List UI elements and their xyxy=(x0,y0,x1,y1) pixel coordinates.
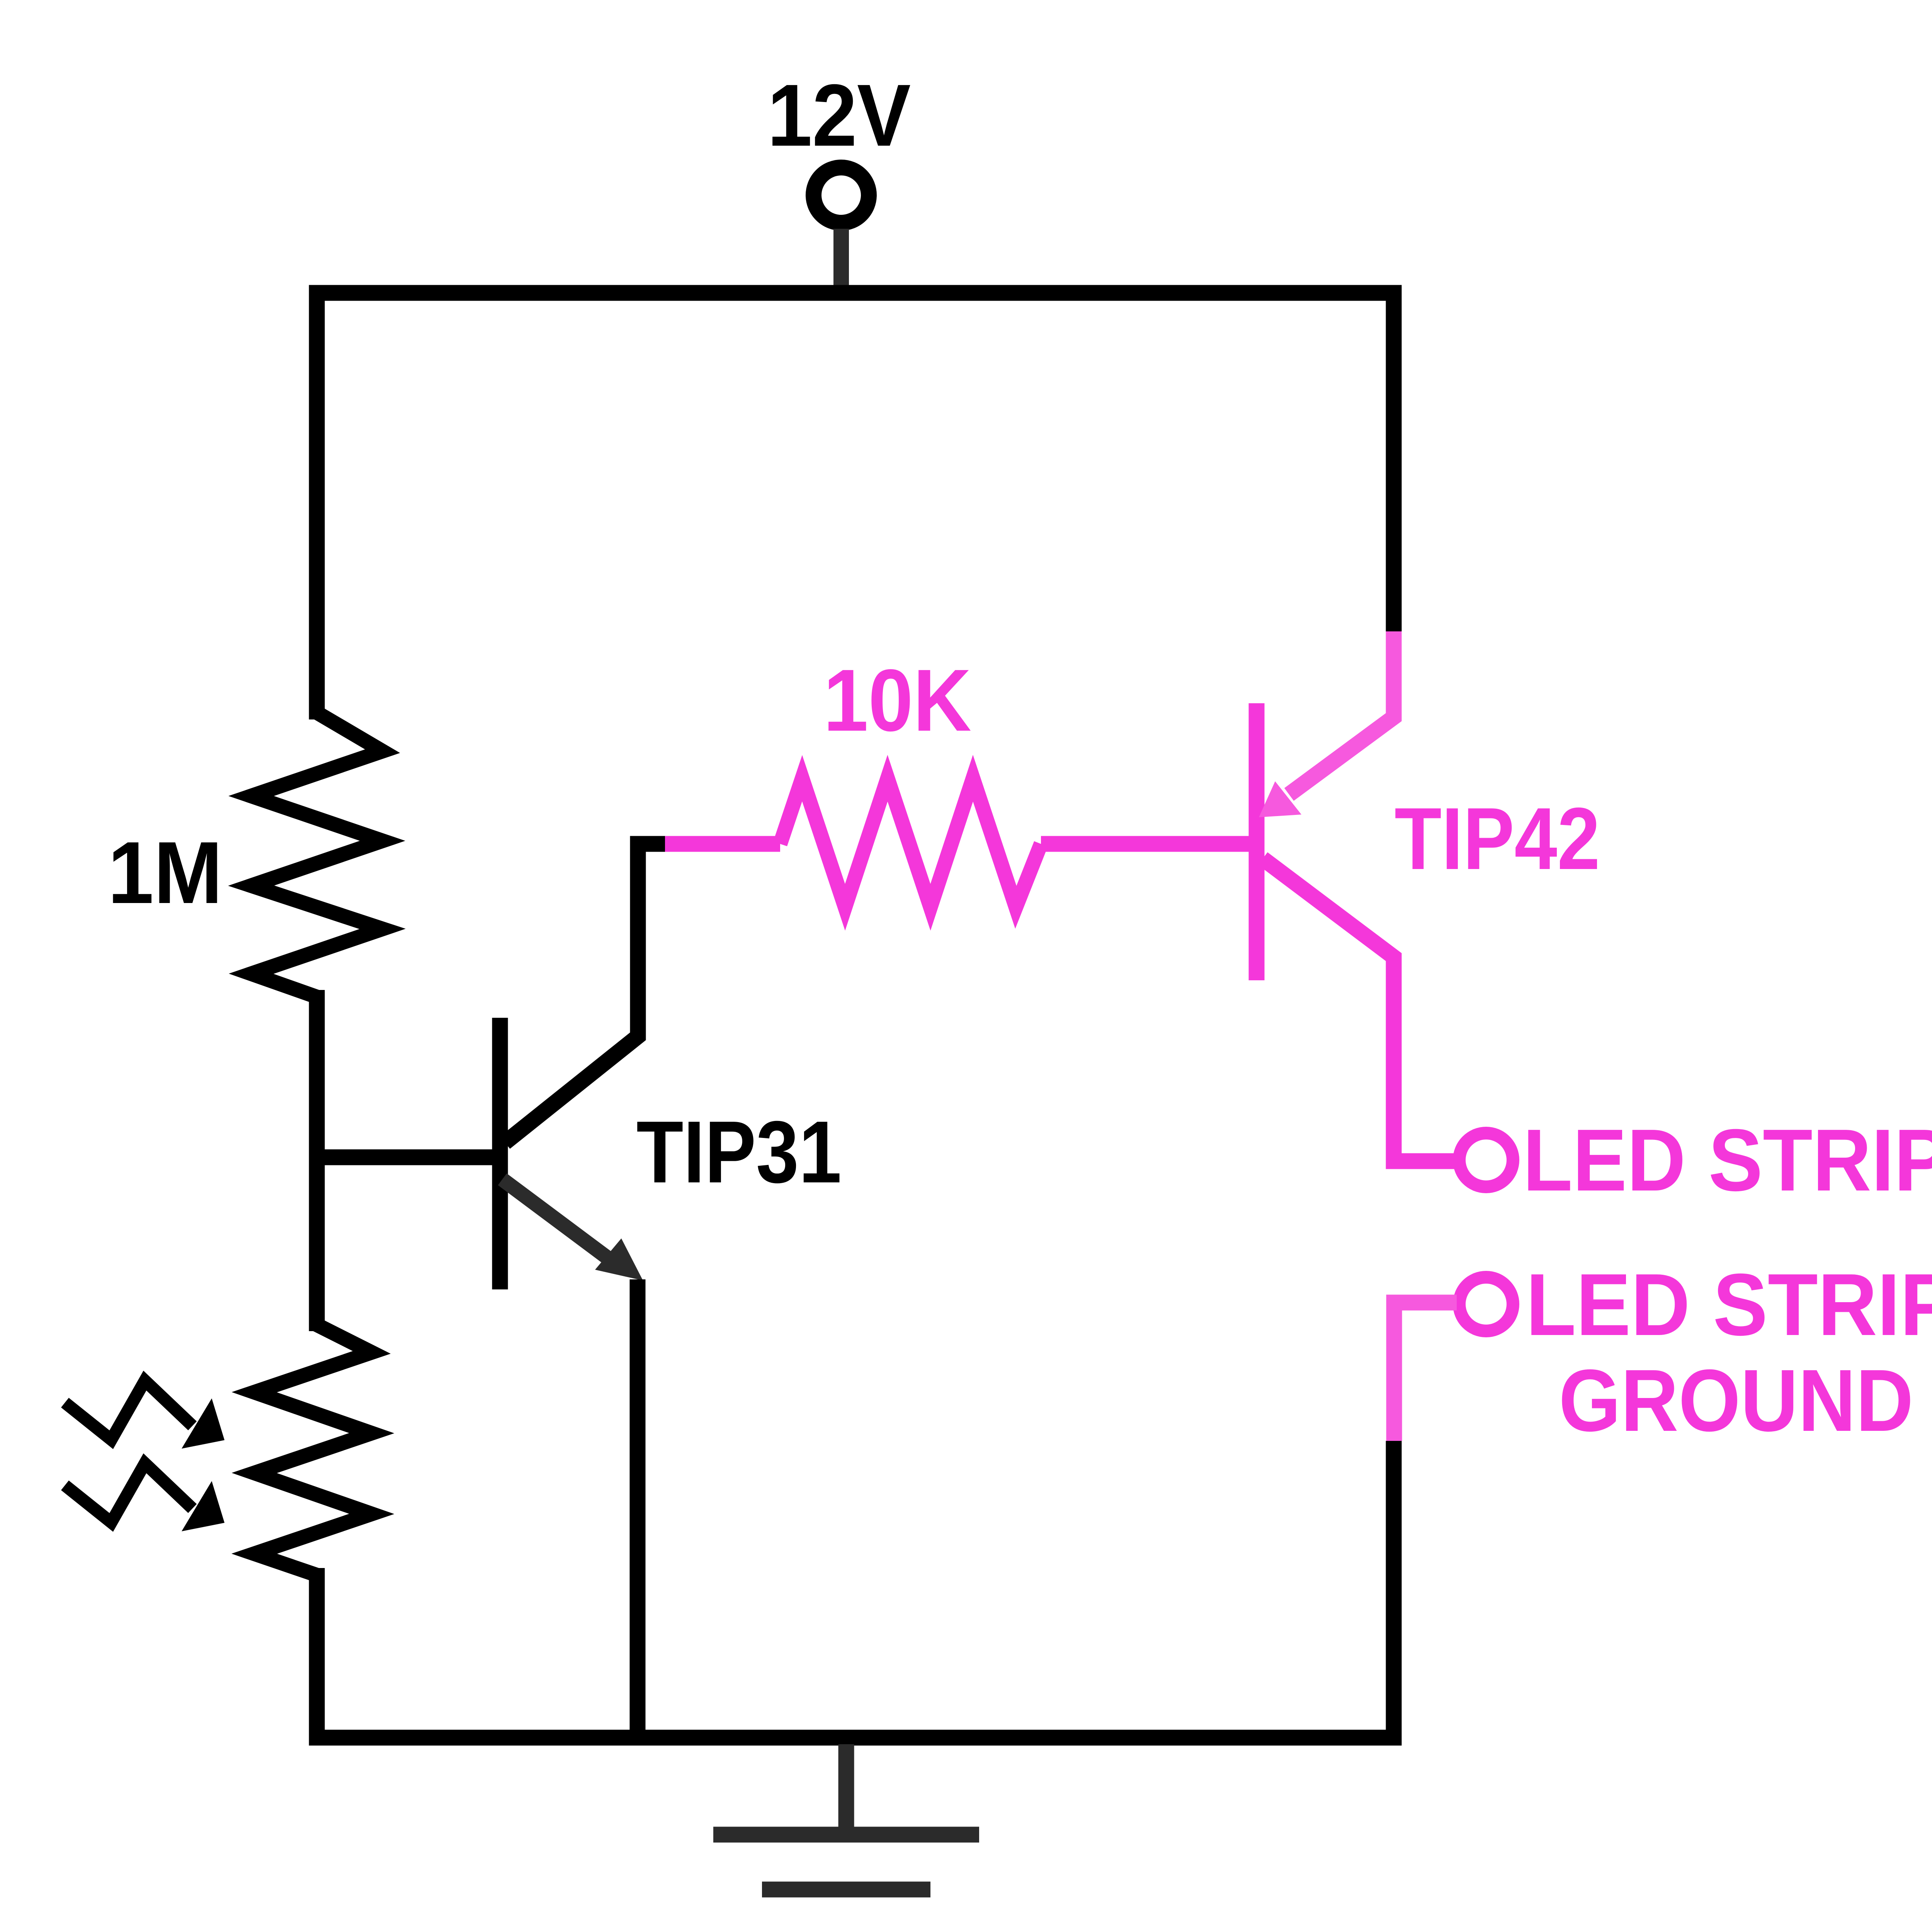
svg-text:TIP31: TIP31 xyxy=(636,1103,842,1201)
TIP42 emitter arrowhead xyxy=(1259,781,1301,817)
resistor 10K xyxy=(780,778,1041,907)
wire LED strip ground corner xyxy=(1394,1303,1457,1441)
svg-text:LED STRIP: LED STRIP xyxy=(1526,1256,1932,1354)
12V supply terminal xyxy=(814,168,869,223)
transistor Q2 TIP42 base bar xyxy=(1249,703,1265,980)
LDR light arrow 1 xyxy=(65,1381,192,1440)
transistor Q1 TIP31 base bar xyxy=(492,1018,508,1289)
wire TIP31 collector xyxy=(505,844,665,1143)
wire TIP42 collector to LED strip +V xyxy=(1263,859,1457,1161)
wire bottom rail (left rail bottom, bottom wire, right rail bottom) xyxy=(317,1441,1394,1738)
terminal LED STRIP GROUND xyxy=(1459,1277,1513,1331)
wire TIP31 base lead xyxy=(309,1150,500,1165)
wire top rail (left rail top, top wire, right rail top) xyxy=(317,293,1394,719)
svg-text:LED STRIP +V: LED STRIP +V xyxy=(1523,1111,1932,1209)
svg-text:10K: 10K xyxy=(823,651,971,750)
photoresistor LDR xyxy=(254,1325,372,1575)
TIP31 emitter arrow xyxy=(502,1179,607,1258)
svg-text:1M: 1M xyxy=(108,824,223,922)
wire TIP42 emitter (from top rail) xyxy=(1289,631,1394,794)
terminal LED STRIP +V xyxy=(1459,1133,1513,1187)
svg-text:TIP42: TIP42 xyxy=(1395,790,1600,888)
LDR light arrow 2 xyxy=(65,1463,192,1522)
svg-text:GROUND: GROUND xyxy=(1559,1352,1913,1450)
wire left rail middle xyxy=(309,990,325,1331)
wire TIP31 emitter vertical xyxy=(630,1279,646,1738)
resistor 1M xyxy=(251,713,383,997)
wire TIP42 base lead xyxy=(1041,836,1257,852)
wire 12V stub xyxy=(833,229,849,298)
ground xyxy=(838,1744,854,1835)
wire 10K left lead xyxy=(665,836,780,852)
svg-text:12V: 12V xyxy=(767,66,911,165)
